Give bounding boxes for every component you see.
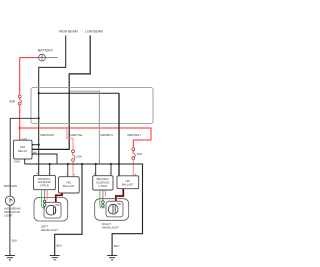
wire right solenoid minus stub bbox=[110, 164, 112, 176]
svg-text:−: − bbox=[49, 171, 51, 175]
wire harness horizontal H1 bbox=[39, 92, 119, 94]
node junction high beam bbox=[38, 92, 40, 94]
svg-text:RELAY: RELAY bbox=[18, 149, 28, 153]
svg-text:−: − bbox=[119, 173, 121, 177]
node bus dot d bbox=[95, 163, 97, 165]
svg-text:HEADLIGHT: HEADLIGHT bbox=[102, 225, 119, 229]
node bus dot f bbox=[118, 163, 120, 165]
svg-text:HID: HID bbox=[117, 203, 122, 206]
svg-text:RED/WHT: RED/WHT bbox=[128, 133, 142, 137]
svg-text:+: + bbox=[36, 172, 38, 176]
svg-text:BRN/GRN: BRN/GRN bbox=[4, 184, 17, 188]
ground G1 left headlight bbox=[50, 256, 60, 260]
svg-text:BALLAST: BALLAST bbox=[63, 184, 75, 188]
wire left fuse to ballast plus (pink) bbox=[72, 161, 74, 176]
wire relay pin1 bbox=[32, 144, 39, 146]
svg-text:20A: 20A bbox=[76, 154, 82, 158]
svg-text:+: + bbox=[74, 173, 76, 177]
module M3 BRAINIAC SOLENOID CTRLR right bbox=[93, 172, 113, 190]
fuse F3 20A right bbox=[132, 148, 143, 160]
wire battery stub right bbox=[45, 57, 57, 59]
svg-text:+: + bbox=[94, 172, 96, 176]
svg-text:LOW BEAM: LOW BEAM bbox=[85, 29, 103, 33]
wire fuse to junction (red) bbox=[19, 105, 21, 140]
svg-text:GND: GND bbox=[14, 160, 20, 164]
node bus dot e bbox=[110, 163, 112, 165]
wire pink drop to left fuse bbox=[67, 128, 73, 150]
wire high beam feed bbox=[39, 36, 66, 176]
node junction indicator bbox=[38, 117, 40, 119]
wire red stub right solenoid bbox=[104, 190, 106, 197]
svg-text:BATTERY: BATTERY bbox=[38, 48, 54, 52]
wire indicator to ground bbox=[9, 205, 11, 255]
svg-text:CTRLR: CTRLR bbox=[40, 184, 49, 188]
svg-text:RED/YEL: RED/YEL bbox=[71, 133, 84, 137]
connector bullets right (gray wire) bbox=[102, 190, 105, 208]
svg-text:HEADLIGHT: HEADLIGHT bbox=[41, 228, 58, 232]
wire ballast minus stub left bbox=[67, 164, 69, 177]
wire left ground drop bbox=[55, 164, 82, 256]
svg-text:+: + bbox=[134, 173, 136, 177]
node bus dot b bbox=[67, 163, 69, 165]
svg-text:BALLAST: BALLAST bbox=[122, 183, 134, 187]
svg-text:LIGHT: LIGHT bbox=[4, 213, 13, 217]
wire low beam feed bbox=[32, 36, 90, 150]
wire right fuse to right ballast plus (pink) bbox=[132, 160, 134, 177]
node red junction bbox=[19, 127, 21, 129]
svg-text:+12V: +12V bbox=[21, 137, 28, 141]
wire indicator drop bbox=[9, 118, 11, 196]
svg-text:BLK: BLK bbox=[12, 238, 18, 242]
wire green left solenoid out bbox=[42, 190, 46, 208]
wire battery positive (red) bbox=[20, 58, 39, 95]
ground G3 indicator bbox=[5, 256, 15, 260]
headlight housing left bbox=[34, 198, 68, 222]
wire right solenoid plus stub bbox=[95, 164, 97, 176]
svg-text:−: − bbox=[66, 173, 68, 177]
wire relay gnd bbox=[24, 159, 26, 164]
lamp L1 left HID bbox=[44, 202, 61, 218]
module M2 HID BALLAST left bbox=[59, 173, 80, 193]
lamp L2 right HID bbox=[106, 201, 123, 217]
node pin1 junction bbox=[38, 144, 40, 146]
module M1 BRAINIAC SOLENOID CTRLR left bbox=[34, 171, 56, 189]
wire relay pin3 sig bbox=[32, 154, 57, 164]
svg-text:30A: 30A bbox=[9, 100, 16, 104]
battery B1 bbox=[38, 48, 54, 61]
wire red stub left solenoid bbox=[46, 190, 48, 200]
svg-text:HID: HID bbox=[125, 179, 130, 183]
ground G2 right headlight bbox=[107, 256, 117, 260]
wire green right solenoid out bbox=[100, 190, 105, 208]
svg-text:HID: HID bbox=[55, 204, 60, 207]
indicator lamp DS1 bbox=[5, 196, 14, 205]
svg-text:HID: HID bbox=[66, 181, 71, 185]
node bus dot c bbox=[81, 163, 83, 165]
headlight housing right bbox=[95, 199, 129, 221]
svg-text:RED/GRN: RED/GRN bbox=[41, 133, 54, 137]
fuse F1 30A bbox=[9, 95, 21, 105]
svg-text:CTRLR: CTRLR bbox=[98, 184, 107, 188]
svg-text:20A: 20A bbox=[137, 152, 143, 156]
wire maroon right ballast to lamp bbox=[116, 189, 124, 205]
wire solenoid minus stub left bbox=[49, 164, 51, 175]
relay pin arrowheads bbox=[32, 144, 34, 155]
wire red bus bbox=[20, 128, 151, 148]
svg-text:RED/BLU: RED/BLU bbox=[101, 133, 114, 137]
connector bullets left (gray wire) bbox=[43, 190, 46, 209]
fuse F2 20A left bbox=[72, 150, 83, 162]
connector block (stock harness) bbox=[31, 88, 153, 124]
wire ground bus bbox=[25, 164, 143, 256]
node junction low beam on H1 bbox=[68, 92, 70, 94]
wire harness gray H2 bbox=[69, 91, 99, 164]
wire indicator feed bbox=[10, 117, 39, 119]
svg-text:BLK: BLK bbox=[114, 244, 120, 248]
svg-text:BLK: BLK bbox=[57, 244, 63, 248]
svg-text:−: − bbox=[109, 172, 111, 176]
svg-text:HIGH BEAM: HIGH BEAM bbox=[59, 29, 78, 33]
module M4 HID BALLAST right bbox=[117, 173, 139, 189]
wire maroon left ballast to lamp bbox=[56, 193, 62, 206]
node bus dot a bbox=[49, 163, 51, 165]
relay U1 HID RELAY bbox=[14, 137, 33, 164]
